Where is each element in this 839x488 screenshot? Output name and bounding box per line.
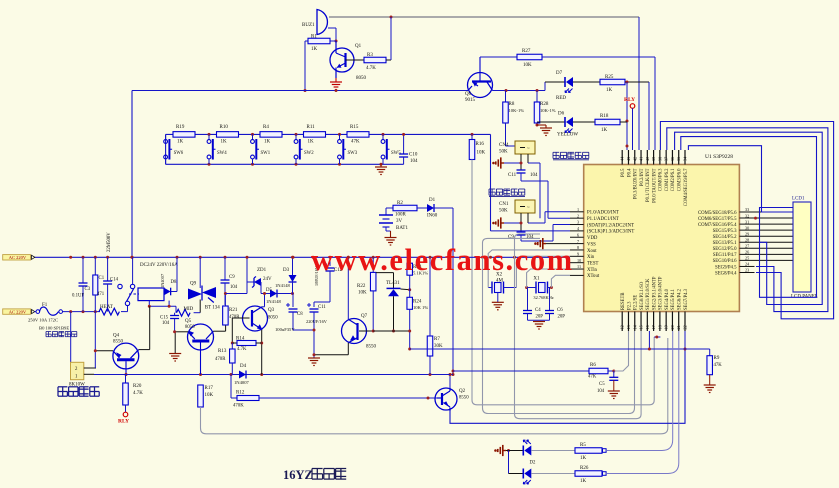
svg-text:SEG3/P3.0/4NTP: SEG3/P3.0/4NTP [659, 276, 664, 310]
svg-text:10K: 10K [523, 63, 532, 68]
svg-text:Q4: Q4 [113, 334, 120, 339]
watermark [311, 243, 574, 277]
relay contact [118, 257, 139, 311]
svg-text:20: 20 [670, 325, 675, 329]
wire pin44 vertical [626, 82, 629, 150]
capacitor C15 104 [160, 313, 179, 326]
svg-text:F1: F1 [42, 303, 48, 308]
wire Q3 collector up [262, 292, 266, 307]
svg-text:P1.0/ADC0/INT: P1.0/ADC0/INT [587, 211, 619, 216]
diode D1 [417, 198, 438, 219]
transistor Q3 8050 [241, 306, 278, 331]
wire Q7 base R22 R24 [372, 291, 412, 333]
LED D2 pair [506, 440, 536, 484]
svg-text:7: 7 [577, 239, 579, 244]
svg-text:1K: 1K [308, 139, 315, 144]
svg-text:www.elecfans.com: www.elecfans.com [311, 243, 574, 277]
capacitor C11 104 [508, 163, 540, 218]
svg-text:SEG2/P3.1/4NTP: SEG2/P3.1/4NTP [652, 276, 657, 310]
svg-text:8550: 8550 [459, 396, 469, 401]
svg-text:27: 27 [745, 244, 749, 249]
wire Q4 collector to relay [139, 306, 150, 349]
wire Q7 collector top [347, 256, 350, 319]
svg-text:P0.0/TAOUT/INT: P0.0/TAOUT/INT [652, 168, 657, 203]
svg-text:AC 220V: AC 220V [9, 255, 27, 260]
svg-text:18: 18 [657, 325, 662, 329]
svg-text:10K 1%: 10K 1% [413, 305, 428, 310]
svg-text:R21: R21 [229, 308, 238, 313]
svg-text:104: 104 [162, 321, 170, 326]
svg-text:21: 21 [676, 325, 681, 329]
svg-text:SEG15/P5.3: SEG15/P5.3 [713, 229, 737, 234]
svg-text:HEAT: HEAT [100, 305, 113, 310]
resistor R14 [232, 336, 261, 352]
svg-text:30K: 30K [434, 344, 443, 349]
svg-text:R17: R17 [205, 386, 214, 391]
resistor R13 [215, 343, 235, 375]
svg-text:~: ~ [527, 147, 530, 152]
wire rail2 [94, 373, 453, 376]
relay K1 coil [138, 263, 178, 301]
svg-text:40: 40 [645, 157, 650, 161]
capacitor C11 220UF [306, 302, 330, 330]
svg-text:30: 30 [745, 225, 749, 230]
LCD1 panel [791, 197, 818, 300]
svg-text:47K: 47K [714, 363, 723, 368]
svg-text:C9: C9 [229, 275, 235, 280]
wire base rail [132, 89, 545, 92]
svg-text:32: 32 [745, 213, 749, 218]
wire CN4 leads [504, 154, 528, 170]
svg-text:Q5: Q5 [185, 319, 192, 324]
svg-text:19: 19 [664, 325, 669, 329]
sensor probe symbol LEDs [494, 445, 510, 456]
svg-text:SEG9/P4.5: SEG9/P4.5 [715, 265, 737, 270]
svg-text:U1 S3P9228: U1 S3P9228 [705, 154, 733, 160]
svg-text:RLY: RLY [118, 419, 129, 425]
resistor R7 [427, 256, 443, 375]
resistor R4 [260, 125, 282, 144]
transistor Q4 8550 [113, 334, 139, 375]
svg-text:50K: 50K [499, 209, 508, 214]
switch SW2 [294, 134, 314, 164]
svg-text:20P: 20P [558, 315, 566, 320]
battery BAT1 [379, 208, 408, 238]
transistor Q7 8550 [342, 314, 377, 350]
svg-text:XTin: XTin [587, 268, 598, 273]
svg-text:D7: D7 [556, 71, 563, 76]
svg-text:36: 36 [670, 157, 675, 161]
svg-text:0.1UF: 0.1UF [72, 294, 84, 299]
capacitor C8 [275, 294, 303, 333]
svg-text:17: 17 [651, 325, 656, 329]
svg-text:R3: R3 [367, 53, 373, 58]
svg-text:SEG5/P4.1: SEG5/P4.1 [671, 288, 676, 310]
svg-text:SEG7/P4.3: SEG7/P4.3 [684, 288, 689, 310]
terminal AC 220V top [3, 255, 35, 261]
diode D5 [261, 282, 294, 304]
svg-text:TEST: TEST [587, 261, 599, 266]
svg-text:SEG6/P4.2: SEG6/P4.2 [678, 288, 683, 310]
svg-text:R13: R13 [218, 349, 227, 354]
svg-text:COM2/P6.1: COM2/P6.1 [671, 168, 676, 191]
wire Q2b emitter loop [450, 331, 687, 423]
svg-text:Q1: Q1 [355, 44, 362, 49]
capacitor C15 drop [173, 319, 176, 334]
svg-text:RLY: RLY [624, 97, 635, 103]
svg-text:BUZ1: BUZ1 [302, 23, 315, 28]
svg-text:Xout: Xout [587, 249, 597, 254]
svg-text:Xin: Xin [587, 255, 595, 260]
wire R1 left down to rail [304, 41, 309, 92]
svg-text:16: 16 [645, 325, 650, 329]
wire crystal gray loop A [483, 238, 635, 413]
ground under BAT1 [385, 238, 397, 246]
svg-text:SEG1/P2.0/SCK: SEG1/P2.0/SCK [646, 278, 651, 310]
svg-text:D6: D6 [558, 112, 565, 117]
U1 top pin stubs and labels [620, 150, 689, 206]
buzzer BUZ1 [302, 10, 327, 35]
svg-text:RESETB: RESETB [621, 293, 626, 310]
transistor Q2 8550 bottom [435, 388, 469, 411]
svg-text:471: 471 [97, 292, 105, 297]
svg-text:AC 220V: AC 220V [9, 310, 27, 315]
svg-text:SEG12/P5.0: SEG12/P5.0 [713, 247, 737, 252]
wire sensor to pin3 [521, 225, 570, 242]
connector CN4 [499, 141, 535, 155]
sensor probe symbol VSS [534, 238, 570, 249]
svg-text:104: 104 [410, 159, 418, 164]
svg-text:104: 104 [230, 285, 238, 290]
svg-text:8050: 8050 [268, 316, 278, 321]
wire Q5 collector to R21 [213, 323, 225, 331]
crystal X1 32.768KHz [525, 277, 554, 300]
diode D8 [160, 257, 177, 295]
svg-text:D3: D3 [283, 268, 290, 273]
resistor R20 [123, 375, 144, 413]
svg-text:CN4: CN4 [499, 143, 509, 148]
capacitor C4 20P [523, 288, 543, 321]
wire connector pins [84, 312, 113, 375]
LED D6 YELLOW [537, 112, 578, 138]
switch SW3 [338, 134, 358, 164]
svg-text:16YZ: 16YZ [283, 468, 313, 482]
svg-text:1K: 1K [264, 139, 271, 144]
switch SW1 [251, 134, 271, 164]
svg-text:11: 11 [577, 264, 581, 269]
svg-text:23: 23 [745, 268, 749, 273]
svg-text:100uF35V: 100uF35V [275, 327, 295, 332]
svg-text:3V: 3V [396, 219, 403, 224]
svg-text:8050: 8050 [185, 325, 195, 330]
svg-text:RED: RED [556, 96, 566, 101]
svg-text:ZD1: ZD1 [257, 268, 267, 273]
svg-text:Q3: Q3 [268, 308, 275, 313]
svg-text:R1: R1 [311, 35, 317, 40]
svg-text:Q6: Q6 [465, 92, 472, 97]
triac Q9 BT134 [188, 257, 220, 312]
resistor R16 [469, 134, 485, 159]
svg-text:D4: D4 [240, 364, 247, 369]
svg-text:22: 22 [683, 325, 688, 329]
wire COM4 loop [688, 146, 793, 212]
svg-text:10K-1%: 10K-1% [509, 108, 525, 113]
resistor R11 [304, 125, 326, 144]
ground under C4 C6 [528, 320, 550, 329]
svg-text:10K: 10K [358, 291, 367, 296]
svg-text:3: 3 [577, 220, 579, 225]
svg-text:13: 13 [626, 325, 631, 329]
svg-text:25: 25 [745, 256, 749, 261]
svg-text:104: 104 [597, 389, 605, 394]
svg-text:SW6: SW6 [174, 151, 184, 156]
ground under C5 [608, 391, 620, 399]
resistor R25 [573, 75, 649, 93]
svg-text:1N4007: 1N4007 [160, 273, 165, 288]
capacitor C9 104 sensor [508, 232, 534, 241]
svg-text:38: 38 [657, 157, 662, 161]
svg-text:2: 2 [577, 213, 579, 218]
ground under C8 C11 [293, 329, 320, 366]
label fuse ratings [28, 318, 77, 337]
svg-text:R20: R20 [133, 384, 142, 389]
svg-text:SEG8/P4.4: SEG8/P4.4 [715, 271, 737, 276]
svg-text:X1: X1 [533, 277, 540, 282]
svg-text:41: 41 [639, 157, 644, 161]
fuse F1 [35, 303, 63, 315]
label cement resistor [58, 387, 99, 396]
svg-text:20P: 20P [536, 315, 544, 320]
label body sensor [489, 189, 525, 197]
LED D7 RED [545, 71, 573, 101]
resistor R8 [503, 91, 524, 147]
svg-text:P1.1/ADC1/INT: P1.1/ADC1/INT [587, 217, 619, 222]
connector CN1 [499, 200, 535, 214]
resistor R6 [453, 331, 629, 380]
svg-text:R14: R14 [236, 336, 245, 341]
svg-text:R10: R10 [220, 125, 229, 130]
wire switch top rail [166, 133, 491, 136]
svg-text:10K: 10K [477, 151, 486, 156]
wire AC rail [34, 256, 570, 259]
svg-text:4.7K: 4.7K [237, 347, 247, 352]
wire pin17 join [654, 336, 660, 339]
heater element MID [177, 307, 201, 316]
capacitor C12 [314, 257, 343, 302]
resistor R21 [223, 292, 241, 325]
svg-text:Q2: Q2 [459, 389, 466, 394]
wire X2 to Xin [516, 256, 570, 287]
svg-text:YELLOW: YELLOW [557, 133, 578, 138]
svg-text:C6: C6 [557, 308, 563, 313]
svg-text:104: 104 [530, 173, 538, 178]
IC U1 S3P9228 [584, 154, 740, 312]
wire X1 to XTout [551, 275, 570, 287]
svg-text:R19: R19 [176, 125, 185, 130]
capacitor C6 20P [545, 288, 565, 321]
svg-text:100R: 100R [395, 213, 407, 218]
sensor probe symbol CN4 [492, 157, 504, 168]
capacitor C5 104 [597, 371, 618, 394]
ground under X2 [492, 293, 504, 310]
resistor R26 [531, 331, 679, 484]
svg-text:SEG11/P4.7: SEG11/P4.7 [713, 253, 737, 258]
svg-text:IN60: IN60 [427, 214, 438, 219]
svg-text:C11: C11 [508, 173, 517, 178]
resistor R28 [534, 91, 555, 127]
svg-text:1N4148: 1N4148 [275, 283, 291, 288]
svg-text:P0.1/T1CLK/INT: P0.1/T1CLK/INT [646, 168, 651, 202]
svg-text:R5: R5 [580, 443, 586, 448]
diode D3 [275, 256, 297, 288]
svg-text:C15: C15 [160, 316, 169, 321]
svg-text:SW4: SW4 [217, 151, 227, 156]
svg-text:9015: 9015 [465, 98, 476, 103]
wire R21 to Q5 collector [225, 282, 247, 294]
svg-text:SEG13/P5.1: SEG13/P5.1 [713, 241, 737, 246]
svg-text:COM7/SEG16/P5.4: COM7/SEG16/P5.4 [698, 223, 737, 228]
diode D4 [234, 364, 250, 385]
svg-text:C3: C3 [85, 287, 91, 292]
svg-text:1: 1 [577, 207, 579, 212]
svg-text:(SDAT)P1.2/ADC2/INT: (SDAT)P1.2/ADC2/INT [587, 223, 634, 228]
U1 left pin stubs and labels [570, 207, 634, 279]
wire buzzer top to pin42 column [329, 16, 639, 151]
svg-text:220UF/16V: 220UF/16V [306, 319, 328, 324]
switch SW6 [164, 134, 184, 164]
svg-text:9: 9 [577, 252, 579, 257]
svg-text:470K: 470K [233, 404, 244, 409]
svg-text:C4: C4 [535, 308, 541, 313]
zener ZD1 [247, 268, 272, 288]
wire R17 gray drop [201, 338, 668, 434]
svg-text:XTout: XTout [587, 274, 600, 279]
svg-text:Q7: Q7 [361, 314, 368, 319]
wire buzzer bottom to base node [328, 28, 338, 43]
ground under Q1 [330, 78, 342, 90]
wire left vertical [131, 91, 134, 259]
svg-text:D8: D8 [171, 280, 177, 285]
svg-text:R25: R25 [605, 75, 614, 80]
svg-text:26: 26 [745, 250, 749, 255]
svg-text:R22: R22 [357, 284, 366, 289]
resistor R18 [573, 114, 627, 133]
svg-text:C14: C14 [110, 278, 119, 283]
ground under R28 [537, 125, 552, 136]
svg-text:47K: 47K [351, 139, 360, 144]
wire COM3 loop [681, 137, 817, 298]
svg-text:1K: 1K [311, 47, 318, 52]
svg-text:104: 104 [526, 235, 534, 240]
resistor R1 [308, 35, 330, 53]
svg-text:D5: D5 [266, 288, 272, 293]
wire X1 to XTin [527, 269, 570, 288]
svg-text:C8: C8 [297, 312, 303, 317]
svg-text:31: 31 [745, 219, 749, 224]
resistor R15 [347, 125, 369, 144]
svg-text:C5: C5 [599, 382, 605, 387]
svg-text:BT 134: BT 134 [205, 306, 221, 311]
svg-text:P0.4: P0.4 [627, 168, 632, 177]
svg-text:P0.2/INT: P0.2/INT [640, 168, 645, 186]
capacitor C3 [72, 257, 91, 311]
svg-text:4M: 4M [496, 279, 504, 284]
svg-text:B0 100 SP1B9E: B0 100 SP1B9E [39, 326, 69, 331]
resistor R24 [407, 297, 428, 350]
wire Q2b collector [446, 373, 452, 388]
wire COM1 loop [667, 128, 828, 312]
wire keypad to pin4 [491, 230, 571, 232]
terminal AC 220V bottom [3, 309, 35, 315]
svg-text:SW1: SW1 [261, 151, 271, 156]
svg-text:35: 35 [676, 157, 681, 161]
svg-text:C9: C9 [508, 235, 514, 240]
svg-text:SW2: SW2 [304, 151, 314, 156]
resistor R23 [407, 257, 428, 297]
wire R16 bottom gray drop [472, 160, 654, 405]
wire ZD1 left to rail [246, 256, 293, 294]
svg-text:R2: R2 [397, 201, 403, 206]
resistor R10 [217, 125, 239, 144]
svg-text:COM5/SEG18/P5.6: COM5/SEG18/P5.6 [698, 211, 737, 216]
svg-text:SEG10/P4.6: SEG10/P4.6 [713, 259, 737, 264]
svg-text:R12: R12 [236, 391, 245, 396]
svg-text:DC24V 220V/16A: DC24V 220V/16A [140, 263, 178, 268]
wire pin16 row [410, 331, 685, 351]
svg-text:TL431: TL431 [386, 281, 400, 286]
wire Q7 emitter to ground [313, 343, 349, 357]
svg-text:(SCLK)P1.3/ADC3/INT: (SCLK)P1.3/ADC3/INT [587, 230, 634, 235]
svg-text:32.768KHz: 32.768KHz [533, 295, 553, 300]
svg-text:SEG4/P4.0: SEG4/P4.0 [665, 288, 670, 310]
svg-text:250V 10A 172C: 250V 10A 172C [28, 318, 58, 323]
svg-text:P0.3/BUZ0/INT: P0.3/BUZ0/INT [634, 168, 639, 199]
svg-text:1N4007: 1N4007 [234, 380, 250, 385]
resistor R12 [231, 375, 437, 409]
svg-text:470R: 470R [215, 357, 226, 362]
svg-text:1K: 1K [606, 88, 613, 93]
wire switch bottom rail [166, 134, 404, 165]
svg-text:Q9: Q9 [190, 282, 197, 287]
wire relay coil bottom [148, 301, 176, 313]
wire D1 to rail [434, 208, 455, 376]
svg-text:C10: C10 [409, 153, 418, 158]
wire AC bottom line [63, 310, 128, 313]
svg-text:R6: R6 [590, 363, 596, 368]
svg-text:VDD: VDD [587, 236, 598, 241]
svg-text:10K: 10K [205, 393, 214, 398]
resistor R22 [357, 257, 376, 295]
svg-text:28: 28 [745, 237, 749, 242]
svg-text:8550: 8550 [366, 345, 377, 350]
svg-text:R27: R27 [522, 49, 531, 54]
svg-text:VSS: VSS [587, 242, 596, 247]
svg-text:R18: R18 [600, 114, 609, 119]
svg-text:8550: 8550 [113, 340, 124, 345]
capacitor C9 104 snubber [221, 257, 238, 305]
resistor R3 [346, 53, 392, 71]
resistor R9 [685, 349, 722, 385]
svg-text:BAT1: BAT1 [396, 226, 408, 231]
resistor R5 [531, 331, 672, 461]
svg-text:1K: 1K [221, 139, 228, 144]
svg-text:R26: R26 [580, 466, 589, 471]
svg-text:43: 43 [626, 157, 631, 161]
svg-text:COM1/P6.2: COM1/P6.2 [665, 168, 670, 191]
svg-text:~: ~ [527, 206, 530, 211]
svg-text:4.7K: 4.7K [133, 391, 143, 396]
svg-text:10K-1%: 10K-1% [540, 108, 556, 113]
